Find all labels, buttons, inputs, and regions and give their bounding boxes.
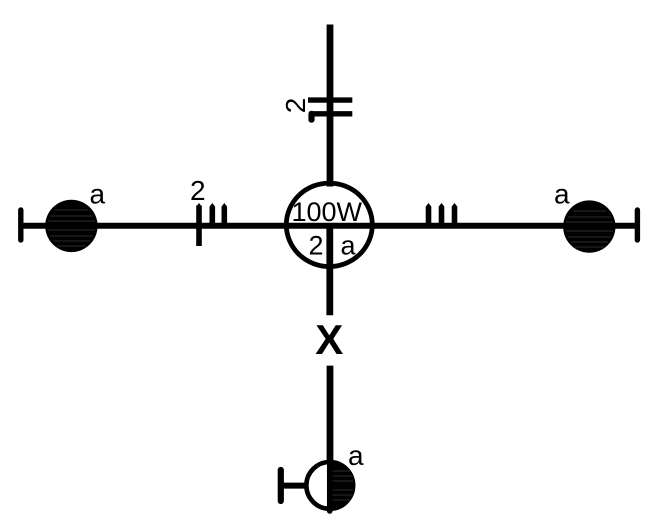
- svg-text:a: a: [554, 179, 570, 210]
- wire: left branch horizontal: [21, 223, 284, 229]
- lamp a right (hatched disc): [563, 200, 615, 252]
- svg-text:100W: 100W: [292, 197, 363, 227]
- terminal T-bar left end: [18, 210, 23, 240]
- wall lamp a bottom (half-filled circle): [306, 460, 353, 511]
- conductor count marks on left branch (long tick + 2 short): [196, 203, 227, 246]
- terminal T-bar bottom lamp: [278, 470, 284, 501]
- svg-text:a: a: [348, 440, 364, 471]
- svg-text:2: 2: [190, 175, 206, 206]
- wire: vertical through center circle lower half down to switch: [326, 225, 333, 315]
- wire: stub from bottom lamp to T-bar: [283, 483, 306, 489]
- svg-text:X: X: [315, 316, 343, 363]
- wire: down branch below switch: [327, 366, 334, 461]
- lamp a left (hatched disc): [45, 200, 97, 252]
- wire: top feeder vertical: [327, 25, 334, 187]
- wire: right branch horizontal: [375, 223, 636, 229]
- conductor marks on top feeder (2 bars): [308, 100, 352, 120]
- lamp outlet center circle: [286, 183, 372, 266]
- wire: horizontal through lamp circle: [284, 223, 375, 229]
- svg-text:2: 2: [280, 98, 311, 114]
- svg-text:a: a: [341, 231, 357, 261]
- conductor count marks on right branch (3 short ticks): [426, 203, 458, 226]
- svg-text:2: 2: [309, 231, 324, 261]
- svg-text:a: a: [90, 178, 106, 209]
- terminal T-bar right end: [635, 210, 640, 240]
